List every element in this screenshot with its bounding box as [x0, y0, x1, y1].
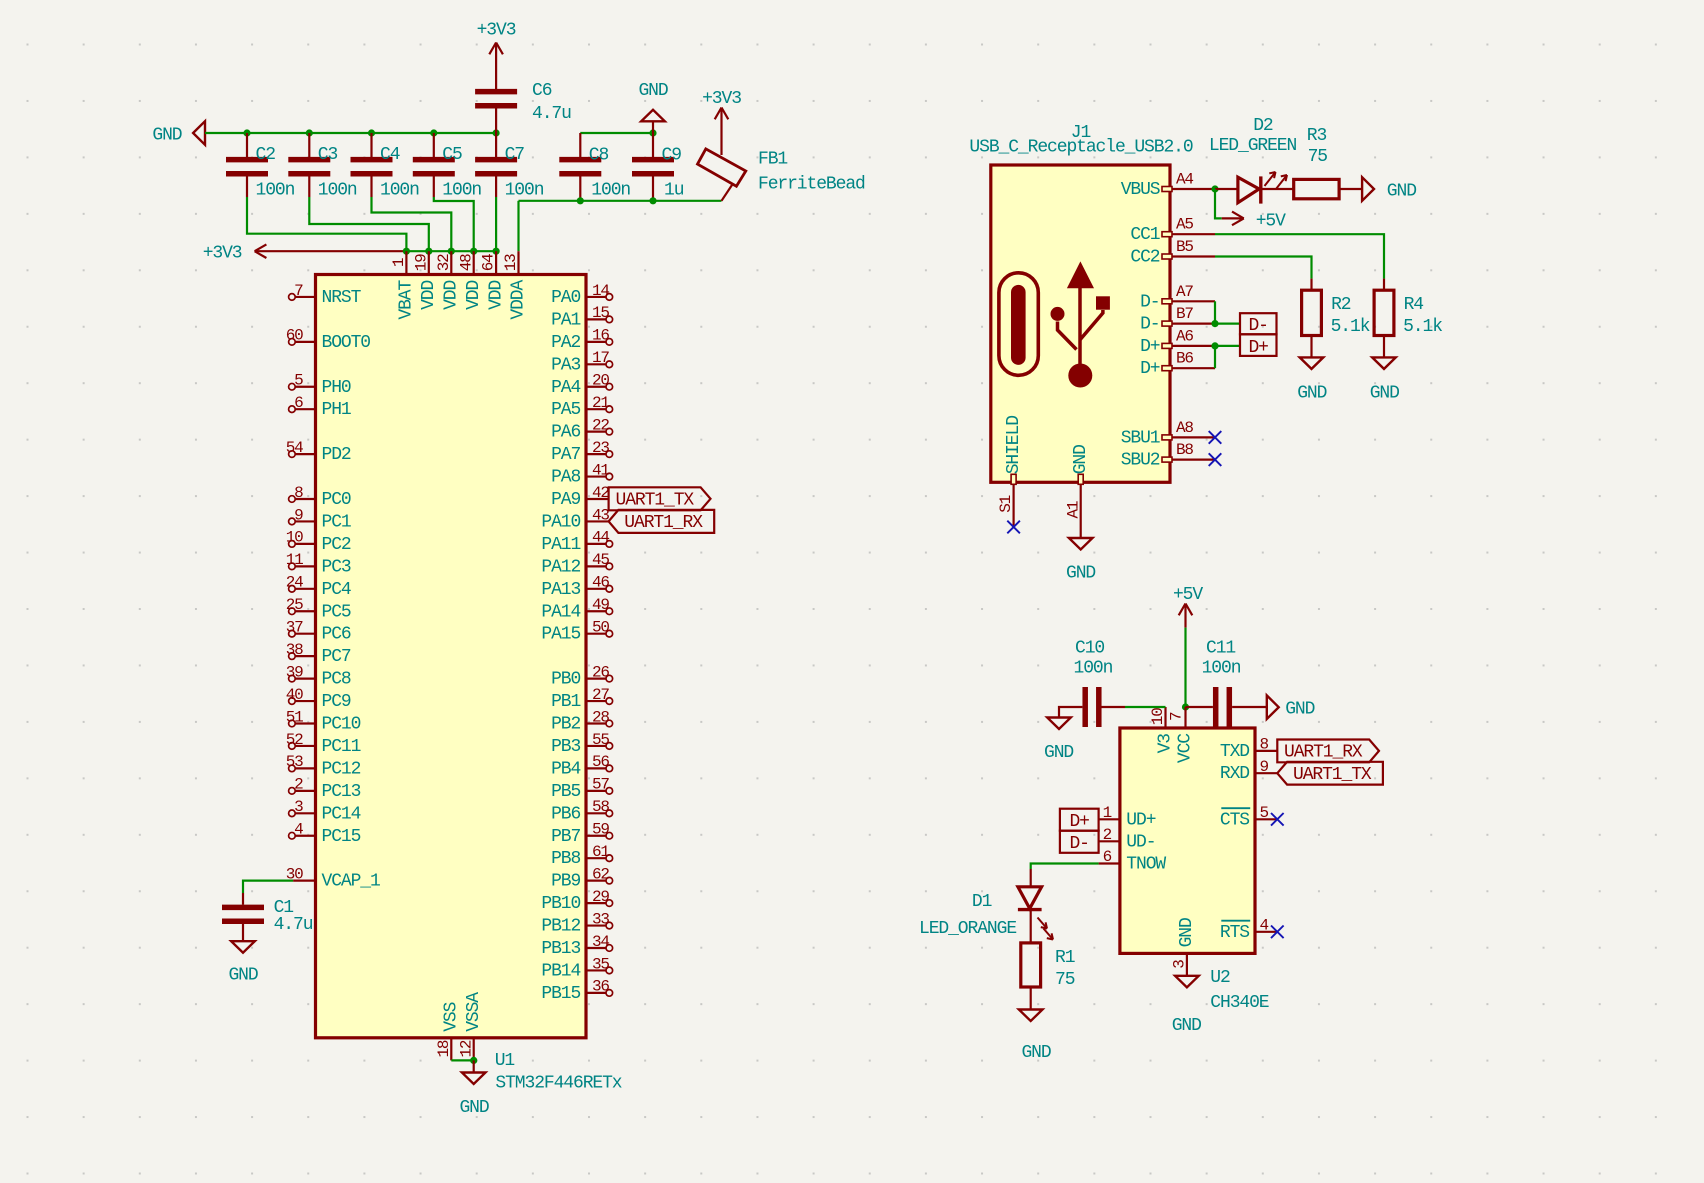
svg-text:SBU2: SBU2: [1121, 451, 1160, 471]
svg-text:9: 9: [1260, 758, 1269, 776]
svg-text:PB12: PB12: [541, 917, 580, 937]
svg-text:PA7: PA7: [551, 445, 580, 465]
svg-text:C7: C7: [505, 145, 525, 165]
svg-text:C8: C8: [589, 146, 609, 166]
svg-text:C9: C9: [662, 146, 682, 166]
svg-text:BOOT0: BOOT0: [322, 333, 371, 353]
svg-text:4.7u: 4.7u: [274, 915, 313, 935]
svg-text:14: 14: [592, 282, 609, 300]
svg-text:7: 7: [294, 282, 303, 300]
svg-text:C4: C4: [380, 145, 400, 165]
svg-text:PA12: PA12: [541, 557, 580, 577]
svg-text:PC9: PC9: [322, 692, 351, 712]
svg-text:PC10: PC10: [322, 715, 361, 735]
svg-text:PA6: PA6: [551, 423, 580, 443]
svg-text:22: 22: [592, 416, 609, 434]
svg-text:PA0: PA0: [551, 288, 580, 308]
svg-text:RTS: RTS: [1220, 923, 1249, 943]
svg-text:PC2: PC2: [322, 535, 351, 555]
svg-text:C2: C2: [256, 145, 276, 165]
svg-text:23: 23: [592, 439, 609, 457]
svg-text:D-: D-: [1069, 834, 1088, 854]
svg-text:PD2: PD2: [322, 445, 351, 465]
svg-text:6: 6: [1103, 848, 1112, 866]
svg-text:UART1_RX: UART1_RX: [624, 513, 703, 533]
svg-text:57: 57: [592, 776, 609, 794]
svg-text:PC1: PC1: [322, 512, 351, 532]
svg-text:D+: D+: [1140, 337, 1160, 357]
svg-text:CH340E: CH340E: [1210, 993, 1269, 1013]
svg-text:100n: 100n: [318, 181, 357, 201]
svg-text:STM32F446RETx: STM32F446RETx: [495, 1074, 621, 1094]
svg-text:V3: V3: [1156, 734, 1176, 754]
svg-text:1u: 1u: [664, 181, 684, 201]
svg-text:+5V: +5V: [1173, 585, 1203, 605]
svg-text:1: 1: [390, 258, 408, 267]
svg-text:+3V3: +3V3: [477, 20, 516, 40]
svg-text:GND: GND: [1177, 918, 1197, 947]
svg-text:S1: S1: [997, 495, 1015, 512]
svg-text:12: 12: [457, 1040, 475, 1057]
svg-text:PB13: PB13: [541, 939, 580, 959]
svg-text:LED_ORANGE: LED_ORANGE: [919, 919, 1016, 939]
svg-text:17: 17: [592, 349, 609, 367]
svg-text:GND: GND: [1172, 1016, 1201, 1036]
svg-text:A7: A7: [1176, 283, 1193, 301]
svg-text:19: 19: [412, 254, 430, 271]
svg-text:PB0: PB0: [551, 670, 580, 690]
svg-text:59: 59: [592, 821, 609, 839]
svg-text:D1: D1: [972, 892, 992, 912]
svg-text:33: 33: [592, 910, 609, 928]
svg-text:56: 56: [592, 753, 609, 771]
svg-text:PB5: PB5: [551, 782, 580, 802]
svg-text:A6: A6: [1176, 327, 1193, 345]
svg-text:7: 7: [1168, 712, 1186, 721]
svg-text:R2: R2: [1331, 295, 1351, 315]
svg-text:CC2: CC2: [1130, 248, 1159, 268]
svg-text:1: 1: [1103, 804, 1112, 822]
svg-text:35: 35: [592, 955, 609, 973]
svg-text:PB4: PB4: [551, 759, 580, 779]
svg-text:B7: B7: [1176, 305, 1193, 323]
svg-text:USB_C_Receptacle_USB2.0: USB_C_Receptacle_USB2.0: [969, 138, 1192, 158]
svg-text:A5: A5: [1176, 216, 1193, 234]
svg-text:2: 2: [1103, 826, 1112, 844]
svg-text:46: 46: [592, 574, 609, 592]
svg-text:VSS: VSS: [442, 1002, 462, 1031]
svg-text:GND: GND: [1044, 743, 1073, 763]
svg-text:32: 32: [435, 254, 453, 271]
svg-text:VDD: VDD: [419, 281, 439, 310]
svg-text:PA5: PA5: [551, 400, 580, 420]
svg-text:CC1: CC1: [1130, 225, 1159, 245]
svg-text:40: 40: [286, 686, 303, 704]
svg-text:64: 64: [480, 254, 498, 271]
svg-text:2: 2: [294, 776, 303, 794]
svg-text:GND: GND: [638, 81, 667, 101]
svg-text:D-: D-: [1248, 316, 1267, 336]
svg-text:GND: GND: [152, 126, 181, 146]
svg-text:PB7: PB7: [551, 827, 580, 847]
svg-text:PA3: PA3: [551, 355, 580, 375]
svg-text:SBU1: SBU1: [1121, 428, 1160, 448]
svg-text:5: 5: [1260, 804, 1269, 822]
svg-text:15: 15: [592, 304, 609, 322]
svg-text:D2: D2: [1253, 116, 1273, 136]
svg-text:100n: 100n: [1074, 658, 1113, 678]
svg-text:100n: 100n: [591, 181, 630, 201]
svg-text:11: 11: [286, 551, 303, 569]
svg-text:GND: GND: [1066, 564, 1095, 584]
svg-text:UART1_TX: UART1_TX: [616, 491, 695, 511]
svg-text:U2: U2: [1210, 968, 1230, 988]
svg-text:61: 61: [592, 843, 609, 861]
svg-text:42: 42: [592, 484, 609, 502]
svg-text:100n: 100n: [505, 181, 544, 201]
svg-text:GND: GND: [1285, 700, 1314, 720]
svg-text:D+: D+: [1248, 338, 1268, 358]
svg-text:3: 3: [294, 798, 303, 816]
svg-text:24: 24: [286, 574, 303, 592]
svg-text:26: 26: [592, 663, 609, 681]
svg-text:38: 38: [286, 641, 303, 659]
svg-text:PB2: PB2: [551, 715, 580, 735]
svg-text:VSSA: VSSA: [464, 992, 484, 1032]
svg-text:UD-: UD-: [1126, 832, 1155, 852]
svg-text:18: 18: [435, 1040, 453, 1057]
svg-text:51: 51: [286, 708, 303, 726]
svg-text:D+: D+: [1069, 812, 1089, 832]
svg-text:37: 37: [286, 619, 303, 637]
svg-text:B5: B5: [1176, 238, 1193, 256]
svg-text:10: 10: [286, 529, 303, 547]
svg-text:PB10: PB10: [541, 894, 580, 914]
svg-text:PB15: PB15: [541, 984, 580, 1004]
svg-text:21: 21: [592, 394, 609, 412]
svg-text:28: 28: [592, 708, 609, 726]
svg-text:62: 62: [592, 865, 609, 883]
svg-text:UD+: UD+: [1126, 810, 1155, 830]
svg-text:4: 4: [1260, 916, 1269, 934]
svg-text:C10: C10: [1075, 639, 1104, 659]
svg-text:PC0: PC0: [322, 490, 351, 510]
svg-text:PB8: PB8: [551, 849, 580, 869]
svg-text:4: 4: [294, 821, 303, 839]
svg-text:VDD: VDD: [486, 281, 506, 310]
svg-text:C11: C11: [1206, 639, 1235, 659]
svg-text:41: 41: [592, 461, 609, 479]
svg-text:FB1: FB1: [758, 150, 787, 170]
svg-text:+3V3: +3V3: [203, 243, 242, 263]
svg-text:44: 44: [592, 529, 609, 547]
svg-text:VCAP_1: VCAP_1: [322, 872, 381, 892]
svg-text:C6: C6: [532, 81, 552, 101]
svg-text:A4: A4: [1176, 171, 1193, 189]
svg-text:PC12: PC12: [322, 759, 361, 779]
svg-text:13: 13: [502, 254, 520, 271]
svg-text:60: 60: [286, 327, 303, 345]
svg-text:75: 75: [1308, 147, 1328, 167]
svg-text:C5: C5: [442, 145, 462, 165]
svg-text:TXD: TXD: [1220, 742, 1249, 762]
svg-text:GND: GND: [1387, 182, 1416, 202]
svg-text:PC7: PC7: [322, 647, 351, 667]
svg-text:25: 25: [286, 596, 303, 614]
svg-text:PB9: PB9: [551, 872, 580, 892]
svg-text:C3: C3: [318, 145, 338, 165]
svg-text:PA9: PA9: [551, 490, 580, 510]
svg-text:34: 34: [592, 933, 609, 951]
svg-text:PC15: PC15: [322, 827, 361, 847]
svg-text:52: 52: [286, 731, 303, 749]
svg-text:4.7u: 4.7u: [532, 104, 571, 124]
svg-text:+3V3: +3V3: [702, 89, 741, 109]
svg-text:75: 75: [1055, 970, 1075, 990]
svg-text:20: 20: [592, 372, 609, 390]
svg-text:36: 36: [592, 978, 609, 996]
svg-text:D+: D+: [1140, 359, 1160, 379]
svg-text:49: 49: [592, 596, 609, 614]
svg-text:GND: GND: [228, 966, 257, 986]
svg-text:PA8: PA8: [551, 468, 580, 488]
svg-text:PC6: PC6: [322, 625, 351, 645]
svg-text:VDD: VDD: [464, 281, 484, 310]
svg-text:PC5: PC5: [322, 602, 351, 622]
svg-text:100n: 100n: [380, 181, 419, 201]
svg-text:43: 43: [592, 506, 609, 524]
svg-text:8: 8: [294, 484, 303, 502]
svg-text:GND: GND: [459, 1098, 488, 1118]
svg-text:8: 8: [1260, 736, 1269, 754]
svg-text:PA10: PA10: [541, 512, 580, 532]
svg-text:SHIELD: SHIELD: [1004, 416, 1024, 475]
svg-text:GND: GND: [1021, 1043, 1050, 1063]
svg-text:54: 54: [286, 439, 303, 457]
svg-text:R4: R4: [1404, 295, 1424, 315]
svg-text:PA4: PA4: [551, 378, 580, 398]
svg-text:PB6: PB6: [551, 804, 580, 824]
svg-text:PA2: PA2: [551, 333, 580, 353]
svg-text:53: 53: [286, 753, 303, 771]
svg-text:45: 45: [592, 551, 609, 569]
svg-text:PA13: PA13: [541, 580, 580, 600]
svg-text:58: 58: [592, 798, 609, 816]
svg-text:PC8: PC8: [322, 670, 351, 690]
svg-text:GND: GND: [1370, 384, 1399, 404]
svg-text:A1: A1: [1064, 501, 1082, 518]
svg-text:PA1: PA1: [551, 310, 580, 330]
svg-text:PH0: PH0: [322, 378, 351, 398]
svg-text:B6: B6: [1176, 350, 1193, 368]
svg-text:FerriteBead: FerriteBead: [758, 175, 865, 195]
svg-text:GND: GND: [1071, 445, 1091, 474]
svg-text:PC4: PC4: [322, 580, 351, 600]
svg-text:100n: 100n: [1202, 658, 1241, 678]
svg-text:VBUS: VBUS: [1121, 180, 1160, 200]
svg-text:39: 39: [286, 663, 303, 681]
svg-text:RXD: RXD: [1220, 764, 1249, 784]
svg-text:A8: A8: [1176, 419, 1193, 437]
svg-text:D-: D-: [1140, 292, 1159, 312]
svg-text:48: 48: [457, 254, 475, 271]
svg-text:PA14: PA14: [541, 602, 580, 622]
svg-text:5.1k: 5.1k: [1403, 317, 1442, 337]
svg-text:55: 55: [592, 731, 609, 749]
svg-text:UART1_TX: UART1_TX: [1293, 765, 1372, 785]
svg-text:10: 10: [1149, 708, 1167, 725]
svg-text:PB1: PB1: [551, 692, 580, 712]
svg-text:UART1_RX: UART1_RX: [1284, 742, 1363, 762]
svg-text:5: 5: [294, 372, 303, 390]
svg-text:PB3: PB3: [551, 737, 580, 757]
svg-text:VDD: VDD: [442, 281, 462, 310]
svg-text:+5V: +5V: [1256, 211, 1286, 231]
svg-text:9: 9: [294, 506, 303, 524]
svg-text:PH1: PH1: [322, 400, 351, 420]
svg-text:PC11: PC11: [322, 737, 361, 757]
svg-text:PA15: PA15: [541, 625, 580, 645]
svg-text:LED_GREEN: LED_GREEN: [1209, 136, 1297, 156]
svg-text:D-: D-: [1140, 315, 1159, 335]
svg-text:PA11: PA11: [541, 535, 580, 555]
svg-text:TNOW: TNOW: [1126, 855, 1166, 875]
svg-text:100n: 100n: [442, 181, 481, 201]
svg-text:100n: 100n: [256, 181, 295, 201]
svg-text:R1: R1: [1055, 948, 1075, 968]
svg-text:50: 50: [592, 619, 609, 637]
svg-text:VDDA: VDDA: [509, 280, 529, 320]
svg-text:29: 29: [592, 888, 609, 906]
svg-text:GND: GND: [1297, 384, 1326, 404]
svg-text:3: 3: [1171, 960, 1189, 969]
svg-text:16: 16: [592, 327, 609, 345]
svg-text:PC14: PC14: [322, 804, 361, 824]
svg-text:PC3: PC3: [322, 557, 351, 577]
svg-text:VBAT: VBAT: [397, 280, 417, 320]
svg-text:VCC: VCC: [1176, 733, 1196, 763]
svg-text:R3: R3: [1307, 126, 1327, 146]
svg-text:27: 27: [592, 686, 609, 704]
svg-text:6: 6: [294, 394, 303, 412]
svg-text:B8: B8: [1176, 441, 1193, 459]
svg-text:NRST: NRST: [322, 288, 362, 308]
svg-text:PB14: PB14: [541, 961, 580, 981]
svg-text:PC13: PC13: [322, 782, 361, 802]
svg-text:U1: U1: [495, 1051, 515, 1071]
svg-text:CTS: CTS: [1220, 810, 1249, 830]
svg-text:5.1k: 5.1k: [1331, 317, 1370, 337]
